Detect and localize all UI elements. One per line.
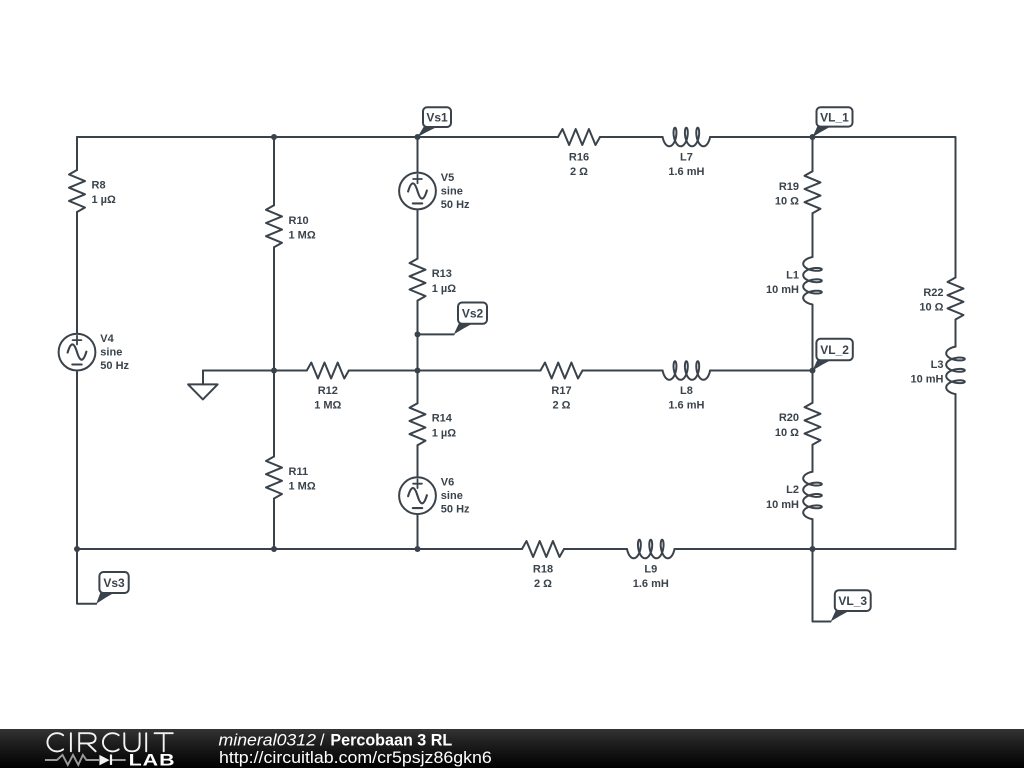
- svg-text:V4: V4: [100, 333, 114, 345]
- svg-text:http://circuitlab.com/cr5psjz8: http://circuitlab.com/cr5psjz86gkn6: [219, 749, 492, 767]
- svg-text:R8: R8: [92, 180, 106, 192]
- resistor R11: [266, 457, 316, 499]
- resistor R18: [522, 541, 564, 590]
- svg-text:2 Ω: 2 Ω: [570, 166, 588, 178]
- svg-text:1 µΩ: 1 µΩ: [92, 194, 117, 206]
- svg-text:10 Ω: 10 Ω: [775, 427, 799, 439]
- ground: [188, 371, 218, 400]
- svg-text:L1: L1: [786, 270, 799, 282]
- svg-text:L3: L3: [931, 359, 944, 371]
- voltage source V4: [59, 333, 130, 372]
- node VL_1 flag: [813, 107, 853, 137]
- svg-text:R13: R13: [432, 268, 452, 280]
- svg-text:L7: L7: [680, 151, 693, 163]
- svg-text:50 Hz: 50 Hz: [100, 360, 129, 372]
- resistor R14: [410, 403, 457, 445]
- wire Vs2 stub: [418, 333, 454, 335]
- svg-text:Vs2: Vs2: [462, 306, 484, 320]
- svg-text:VL_2: VL_2: [820, 343, 849, 357]
- svg-text:R17: R17: [551, 385, 571, 397]
- svg-text:mineral0312/Percobaan 3 RL: mineral0312/Percobaan 3 RL: [219, 731, 453, 749]
- svg-text:2 Ω: 2 Ω: [534, 578, 552, 590]
- resistor R22: [919, 278, 963, 320]
- svg-text:R22: R22: [923, 287, 943, 299]
- wire top bus: [77, 136, 663, 138]
- inductor L8: [663, 361, 711, 411]
- wire left column: [76, 137, 78, 549]
- resistor R10: [266, 205, 316, 247]
- resistor R19: [775, 171, 821, 213]
- svg-text:VL_3: VL_3: [838, 594, 867, 608]
- resistor R8: [69, 170, 116, 212]
- node Vs1 flag: [418, 107, 452, 137]
- svg-text:1.6 mH: 1.6 mH: [668, 400, 704, 412]
- svg-text:R14: R14: [432, 413, 453, 425]
- svg-text:10 mH: 10 mH: [910, 374, 943, 386]
- svg-text:10 Ω: 10 Ω: [919, 302, 943, 314]
- svg-text:R20: R20: [779, 412, 799, 424]
- wire middle bus: [203, 370, 813, 372]
- svg-text:V6: V6: [441, 477, 454, 489]
- svg-text:10 mH: 10 mH: [766, 499, 799, 511]
- svg-text:R12: R12: [318, 385, 338, 397]
- svg-text:sine: sine: [100, 347, 122, 359]
- svg-text:sine: sine: [441, 185, 463, 197]
- wire column C: [417, 137, 419, 549]
- inductor L2: [766, 472, 822, 520]
- svg-text:1.6 mH: 1.6 mH: [633, 578, 669, 590]
- svg-text:LAB: LAB: [129, 750, 176, 768]
- CircuitLab logo: resistor-diode glyph: [45, 755, 126, 765]
- inductor L9: [627, 540, 675, 590]
- inductor L3: [910, 347, 964, 395]
- svg-text:R11: R11: [289, 466, 309, 478]
- resistor R17: [541, 363, 583, 412]
- wire top-right segment and right drop: [710, 137, 955, 278]
- svg-text:1.6 mH: 1.6 mH: [668, 166, 704, 178]
- svg-text:VL_1: VL_1: [820, 110, 849, 124]
- svg-text:50 Hz: 50 Hz: [441, 504, 470, 516]
- svg-text:L8: L8: [680, 385, 693, 397]
- resistor R13: [410, 259, 457, 301]
- wire to Vs3 flag: [77, 549, 96, 604]
- svg-text:R19: R19: [779, 181, 799, 193]
- inductor L7: [663, 128, 711, 178]
- svg-text:R10: R10: [289, 215, 309, 227]
- svg-text:Vs3: Vs3: [103, 576, 125, 590]
- wire to VL_3 flag: [813, 549, 831, 622]
- node Vs3 flag: [96, 572, 128, 604]
- CircuitLab logo: CIRCUIT letters: [47, 733, 172, 751]
- svg-text:1 µΩ: 1 µΩ: [432, 283, 457, 295]
- node Vs2 flag: [454, 303, 487, 335]
- svg-text:sine: sine: [441, 490, 463, 502]
- svg-text:10 Ω: 10 Ω: [775, 196, 799, 208]
- svg-text:1 µΩ: 1 µΩ: [432, 427, 457, 439]
- resistor R20: [775, 403, 821, 445]
- footer bar: [0, 729, 1024, 768]
- svg-text:10 mH: 10 mH: [766, 284, 799, 296]
- wire column D: [812, 137, 814, 549]
- resistor R12: [307, 363, 349, 412]
- svg-text:50 Hz: 50 Hz: [441, 199, 470, 211]
- wire right column lower segments: [955, 320, 957, 550]
- svg-text:R16: R16: [569, 151, 589, 163]
- voltage source V5: [399, 172, 470, 211]
- wire bottom bus: [77, 548, 956, 550]
- node VL_3 flag: [831, 590, 871, 621]
- svg-text:1 MΩ: 1 MΩ: [314, 400, 341, 412]
- inductor L1: [766, 257, 822, 305]
- resistor R16: [558, 129, 600, 178]
- svg-text:1 MΩ: 1 MΩ: [289, 230, 316, 242]
- svg-text:V5: V5: [441, 172, 454, 184]
- svg-text:L2: L2: [786, 484, 799, 496]
- svg-text:1 MΩ: 1 MΩ: [289, 481, 316, 493]
- svg-text:2 Ω: 2 Ω: [553, 400, 571, 412]
- svg-text:L9: L9: [644, 563, 657, 575]
- wire column B: [273, 137, 275, 549]
- node VL_2 flag: [813, 339, 853, 371]
- svg-text:R18: R18: [533, 563, 553, 575]
- svg-text:Vs1: Vs1: [426, 110, 448, 124]
- voltage source V6: [399, 477, 470, 516]
